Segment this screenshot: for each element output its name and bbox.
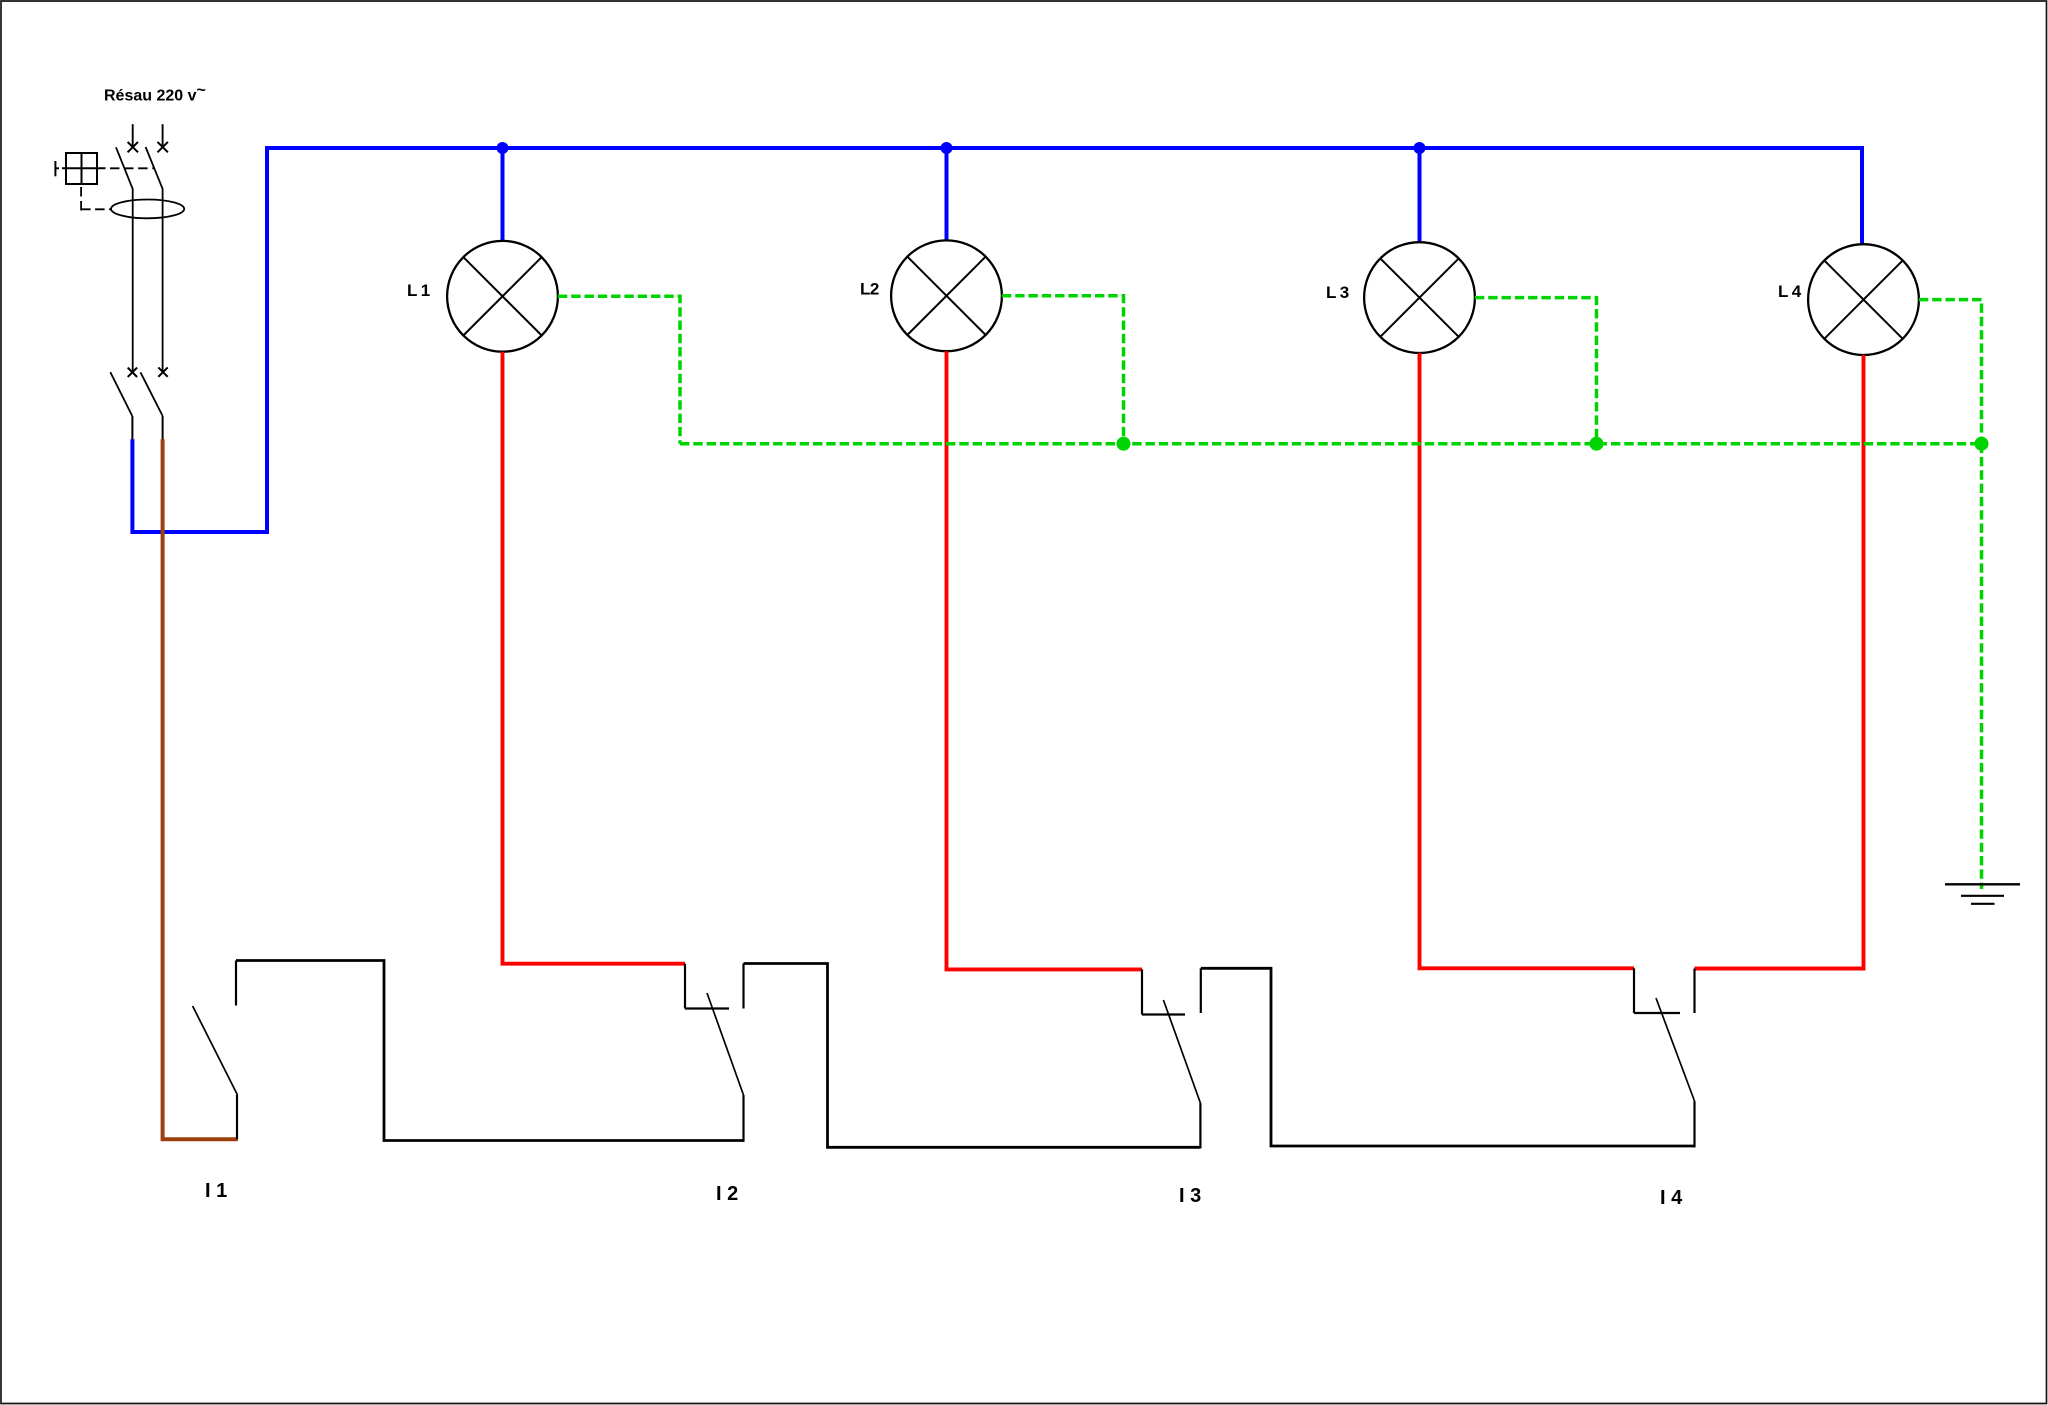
breaker terminal x mark 1 [128, 142, 138, 152]
switch I3 blade lower stub [1199, 1103, 1201, 1149]
wire I3 to I4 loop [1201, 968, 1695, 1146]
lamp L3 [1364, 242, 1475, 353]
disconnect x mark 2 [158, 367, 167, 376]
breaker pole 2 conductor [162, 189, 164, 372]
switch I4 blade lower stub [1693, 1101, 1695, 1147]
breaker trip dashed link to ellipse [81, 187, 111, 211]
breaker trip dashed link horizontal [110, 167, 154, 169]
switch I3 left contact drop [1141, 969, 1143, 1014]
lamp L2 [891, 240, 1002, 351]
svg-text:I 4: I 4 [1660, 1187, 1683, 1209]
PE junction node 3 [1975, 437, 1989, 451]
breaker terminal x mark 2 [158, 142, 168, 152]
wire blue stub to lamp L1 [501, 148, 505, 241]
switch I4 contact bar [1634, 1012, 1680, 1014]
wire brown from disconnect to switch I1 [163, 439, 238, 1139]
disconnect lower stub 2 [162, 416, 164, 440]
circuit breaker pole 1 blade [116, 147, 133, 189]
wire red lamp L1 to switch I2 [503, 352, 686, 964]
switch I2 right contact [742, 964, 744, 1009]
lamp L1 [447, 241, 558, 352]
switch I4 right contact [1693, 969, 1695, 1014]
switch I2 left contact drop [684, 964, 686, 1009]
wire PE from lamp L3 [1475, 298, 1597, 444]
supply conductor 2 [162, 124, 164, 147]
lamp L4 [1808, 244, 1919, 355]
breaker pole 1 conductor [132, 190, 134, 373]
wire red lamp L2 to switch I3 [947, 351, 1143, 969]
breaker control box [55, 153, 105, 184]
wire PE bus [680, 442, 1982, 446]
PE junction node 1 [1117, 437, 1131, 451]
wire PE from lamp L1 [558, 296, 680, 443]
svg-text:L 4: L 4 [1778, 282, 1802, 301]
switch I2 blade [707, 993, 744, 1095]
wire blue phase riser and top rail [132, 148, 1862, 532]
switch I4 blade [1656, 998, 1695, 1101]
wire PE from lamp L4 [1919, 300, 1982, 444]
wire PE drop to ground [1980, 444, 1984, 889]
wire red lamp L4 to switch I4 right [1695, 355, 1864, 969]
junction node blue 3 [1414, 142, 1426, 154]
wire blue stub to lamp L3 [1418, 148, 1422, 243]
svg-text:I 2: I 2 [716, 1183, 738, 1205]
disconnect x mark 1 [128, 368, 137, 377]
switch I3 contact bar [1142, 1013, 1185, 1015]
switch I2 blade lower stub [742, 1095, 744, 1142]
disconnect lower stub 1 [131, 416, 133, 440]
switch I1 blade [193, 1006, 238, 1095]
junction node blue 2 [941, 142, 953, 154]
circuit breaker pole 2 blade [146, 147, 163, 189]
switch I1 upper contact [235, 961, 237, 1006]
junction node blue 1 [497, 142, 509, 154]
wire I1 to I2 loop [236, 961, 744, 1141]
ground symbol [1945, 884, 2020, 904]
svg-text:I 1: I 1 [205, 1180, 227, 1202]
wire PE from lamp L2 [1002, 296, 1124, 444]
supply conductor 1 [132, 124, 134, 147]
disconnect switch blade 2 [141, 372, 163, 416]
switch I4 left contact drop [1633, 968, 1635, 1013]
disconnect switch blade 1 [110, 372, 132, 416]
wire blue stub to lamp L2 [945, 148, 949, 241]
svg-text:L 3: L 3 [1326, 283, 1349, 302]
svg-text:I 3: I 3 [1179, 1185, 1201, 1207]
PE junction node 2 [1590, 437, 1604, 451]
wire red lamp L3 to switch I4 [1420, 353, 1635, 968]
breaker trip ellipse [111, 200, 184, 219]
switch I2 contact bar [685, 1007, 729, 1009]
switch I1 lower contact [236, 1095, 238, 1139]
switch I3 blade [1163, 1000, 1200, 1103]
wire I2 to I3 loop [744, 964, 1201, 1148]
switch I3 right contact [1200, 968, 1202, 1013]
svg-text:L 1: L 1 [407, 281, 430, 300]
svg-text:L2: L2 [860, 280, 879, 299]
